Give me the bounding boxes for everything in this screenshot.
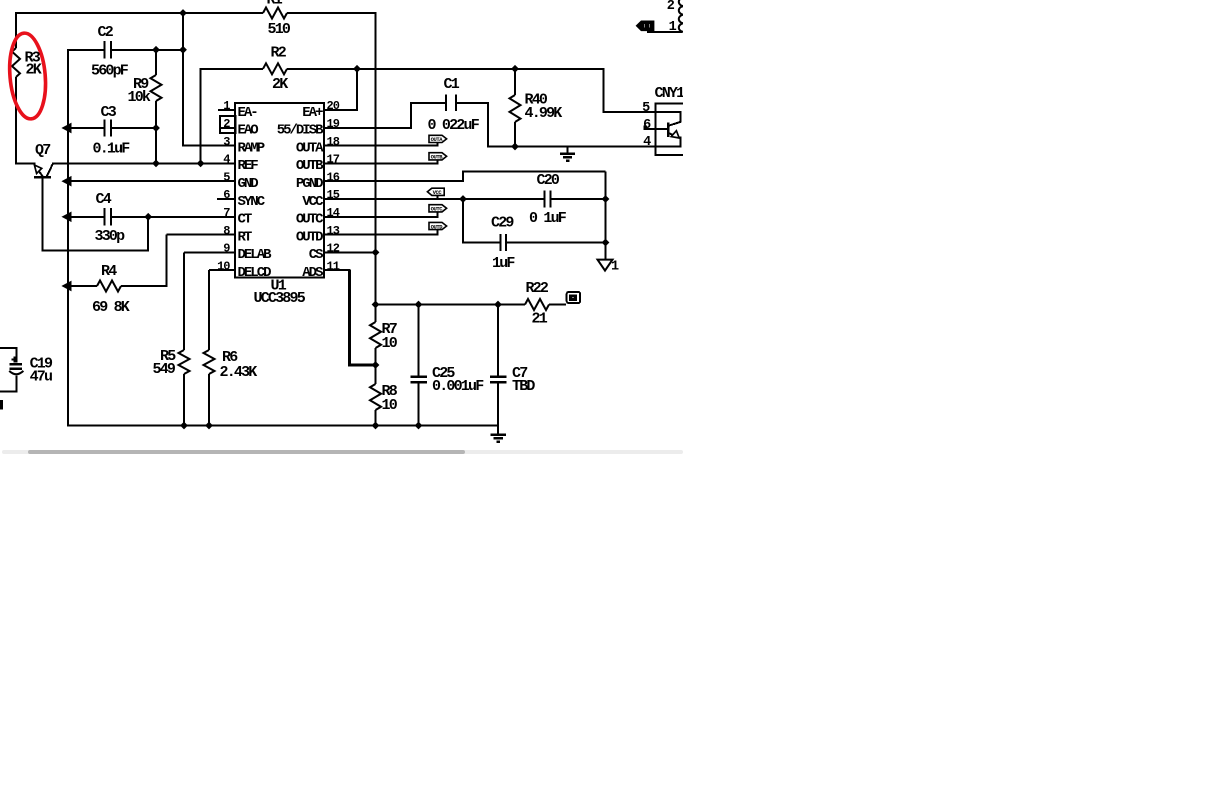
svg-text:17: 17: [327, 153, 340, 167]
svg-text:560pF: 560pF: [91, 63, 129, 80]
svg-text:C2: C2: [98, 24, 114, 41]
svg-text:4: 4: [223, 153, 230, 167]
svg-text:2: 2: [223, 117, 230, 131]
svg-text:R4: R4: [101, 263, 117, 280]
svg-text:4.99K: 4.99K: [525, 105, 563, 122]
svg-text:55/DISB: 55/DISB: [277, 123, 324, 139]
svg-text:10: 10: [382, 335, 398, 352]
svg-text:RAMP: RAMP: [238, 140, 265, 156]
svg-text:TBD: TBD: [512, 378, 535, 395]
svg-text:R1: R1: [267, 0, 283, 9]
svg-text:CNY1: CNY1: [655, 85, 684, 102]
svg-text:Q7: Q7: [35, 142, 50, 159]
svg-text:0 022uF: 0 022uF: [428, 117, 480, 134]
svg-text:C20: C20: [537, 172, 560, 189]
svg-text:1: 1: [223, 99, 230, 113]
svg-text:18: 18: [327, 135, 340, 149]
svg-text:6: 6: [223, 188, 230, 202]
svg-text:0.001uF: 0.001uF: [432, 378, 484, 395]
svg-text:14: 14: [327, 206, 340, 220]
svg-text:9: 9: [223, 242, 230, 256]
svg-text:1: 1: [669, 20, 677, 35]
svg-text:1uF: 1uF: [492, 255, 515, 272]
svg-text:EA+: EA+: [302, 105, 323, 121]
svg-text:CS: CS: [309, 247, 323, 263]
svg-text:6: 6: [643, 118, 651, 133]
svg-text:EA-: EA-: [238, 105, 258, 121]
svg-text:549: 549: [153, 361, 176, 378]
svg-text:10k: 10k: [128, 89, 151, 106]
svg-text:OUTB: OUTB: [296, 158, 324, 174]
svg-text:GND: GND: [238, 176, 259, 192]
svg-text:UCC3895: UCC3895: [254, 290, 306, 307]
svg-text:OUTC: OUTC: [296, 212, 324, 228]
svg-text:47u: 47u: [30, 369, 52, 386]
svg-text:5: 5: [642, 101, 650, 116]
svg-text:11: 11: [327, 259, 340, 273]
svg-text:13: 13: [327, 224, 340, 238]
svg-text:1: 1: [611, 259, 619, 274]
svg-text:8: 8: [223, 224, 230, 238]
svg-text:19: 19: [327, 117, 340, 131]
svg-text:OUTA: OUTA: [296, 140, 324, 156]
svg-text:2K: 2K: [272, 76, 288, 93]
svg-text:R22: R22: [526, 280, 549, 297]
svg-text:2.43K: 2.43K: [220, 364, 258, 381]
svg-text:OUTD: OUTD: [431, 223, 444, 230]
svg-text:VCC: VCC: [433, 189, 443, 196]
svg-text:510: 510: [268, 21, 291, 38]
svg-text:C4: C4: [96, 191, 112, 208]
svg-text:C3: C3: [101, 104, 117, 121]
svg-text:330p: 330p: [95, 228, 126, 245]
svg-text:69 8K: 69 8K: [92, 299, 130, 316]
svg-text:SYNC: SYNC: [238, 194, 266, 210]
svg-text:10: 10: [382, 397, 398, 414]
svg-text:RT: RT: [238, 229, 252, 245]
svg-text:0.1uF: 0.1uF: [93, 141, 131, 158]
svg-text:3: 3: [223, 135, 230, 149]
svg-text:4: 4: [643, 135, 651, 150]
svg-text:2: 2: [667, 0, 675, 14]
svg-text:5: 5: [223, 170, 230, 184]
svg-text:16: 16: [327, 170, 340, 184]
svg-text:OUTC: OUTC: [431, 206, 444, 213]
svg-text:OUTB: OUTB: [431, 154, 444, 161]
svg-text:REF: REF: [238, 158, 259, 174]
svg-text:12: 12: [327, 242, 340, 256]
svg-text:0 1uF: 0 1uF: [529, 210, 567, 227]
svg-text:CT: CT: [238, 212, 252, 228]
svg-text:EAO: EAO: [238, 123, 259, 139]
svg-text:C1: C1: [444, 76, 460, 93]
svg-text:7: 7: [223, 206, 230, 220]
svg-text:2K: 2K: [26, 62, 42, 79]
svg-text:OUTD: OUTD: [296, 229, 323, 245]
svg-text:ADS: ADS: [302, 265, 323, 281]
svg-text:10: 10: [217, 259, 230, 273]
svg-text:DELAB: DELAB: [238, 247, 273, 263]
svg-text:20: 20: [327, 99, 340, 113]
svg-text:VCC: VCC: [302, 194, 324, 210]
svg-text:21: 21: [532, 311, 548, 328]
svg-text:15: 15: [327, 188, 340, 202]
svg-text:PGND: PGND: [296, 176, 323, 192]
svg-text:C29: C29: [491, 215, 514, 232]
svg-text:R2: R2: [271, 45, 287, 62]
svg-text:DELCD: DELCD: [238, 265, 272, 281]
svg-text:OUTA: OUTA: [431, 136, 444, 143]
